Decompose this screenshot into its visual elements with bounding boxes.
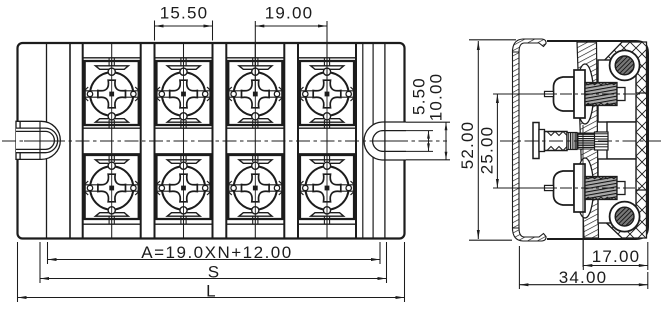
side view outer body	[547, 41, 648, 239]
top mounting boss (cross-hatched)	[597, 42, 647, 93]
right wall lattice strip	[636, 93, 647, 190]
dimension 25.00	[493, 93, 553, 95]
svg-text:15.50: 15.50	[160, 4, 209, 23]
svg-text:L: L	[206, 282, 217, 301]
right end partition walls	[362, 43, 364, 239]
side view horizontal centerline	[500, 140, 661, 142]
svg-text:10.00: 10.00	[427, 73, 446, 122]
svg-text:34.00: 34.00	[559, 268, 608, 287]
dimension 5.50	[406, 130, 433, 132]
terminal screw pole 2 top row	[154, 61, 213, 125]
dimension 19.00	[254, 21, 256, 92]
terminal screw pole 1 bottom row	[82, 155, 141, 219]
side view left channel wall (hatched)	[513, 50, 520, 230]
dimension 10.00	[406, 121, 450, 123]
dimension L	[17, 242, 19, 302]
dimension 34.00	[518, 246, 520, 289]
threaded bush section	[595, 132, 609, 150]
svg-text:S: S	[208, 263, 221, 282]
dimension S	[39, 242, 41, 283]
dimension 15.50	[154, 21, 156, 41]
side view terminal screw top	[577, 64, 594, 124]
left end partition walls	[46, 43, 48, 239]
right end inner partition through slot	[384, 43, 386, 239]
cavity rects	[598, 60, 636, 122]
side view terminal screw bottom	[577, 158, 594, 218]
center clamp screw flange	[533, 123, 539, 159]
right slot centerline tick	[378, 140, 400, 142]
dimension 52.00	[469, 39, 516, 41]
outer pocket lines and wire stems	[82, 58, 141, 224]
bottom mounting hole	[610, 202, 640, 232]
terminal screw pole 4 top row	[298, 61, 357, 125]
clamp splines	[567, 133, 577, 150]
center clamp body	[545, 132, 568, 151]
svg-text:19.00: 19.00	[265, 4, 314, 23]
left end mounting slot outer step	[16, 121, 60, 159]
terminal screw pole 1 top row	[82, 61, 141, 125]
svg-text:17.00: 17.00	[592, 247, 641, 266]
svg-text:25.00: 25.00	[478, 126, 497, 175]
top lip hook	[513, 39, 547, 52]
front view body outline	[18, 43, 405, 239]
cell separation walls	[82, 43, 84, 239]
clamp nut section (dark)	[578, 133, 595, 149]
terminal screw pole 4 bottom row	[298, 155, 357, 219]
dimension 17.00	[582, 240, 584, 270]
top mounting hole	[610, 50, 640, 80]
dimension A=19.0XN+12.00	[47, 242, 49, 264]
bottom lip hook	[513, 228, 547, 241]
left edge jog	[19, 121, 21, 159]
right end mounting slot outer step	[364, 122, 406, 160]
pole centerlines	[111, 44, 113, 238]
left end slot liner edge	[39, 122, 41, 160]
bottom mounting boss (cross-hatched)	[597, 190, 647, 238]
front view horizontal centerline (dash-dot)	[2, 140, 447, 142]
terminal screw pole 3 top row	[226, 61, 285, 125]
svg-text:52.00: 52.00	[458, 121, 477, 170]
left end mounting slot inner U	[16, 128, 58, 153]
terminal screw pole 2 bottom row	[154, 155, 213, 219]
center partition wall section (hatched band)	[577, 42, 599, 238]
right end mounting slot inner	[373, 131, 406, 152]
left slot centerline tick	[24, 140, 52, 142]
svg-text:A=19.0XN+12.00: A=19.0XN+12.00	[141, 243, 292, 262]
clamp vertical centerline	[582, 125, 584, 267]
terminal screw pole 3 bottom row	[226, 155, 285, 219]
